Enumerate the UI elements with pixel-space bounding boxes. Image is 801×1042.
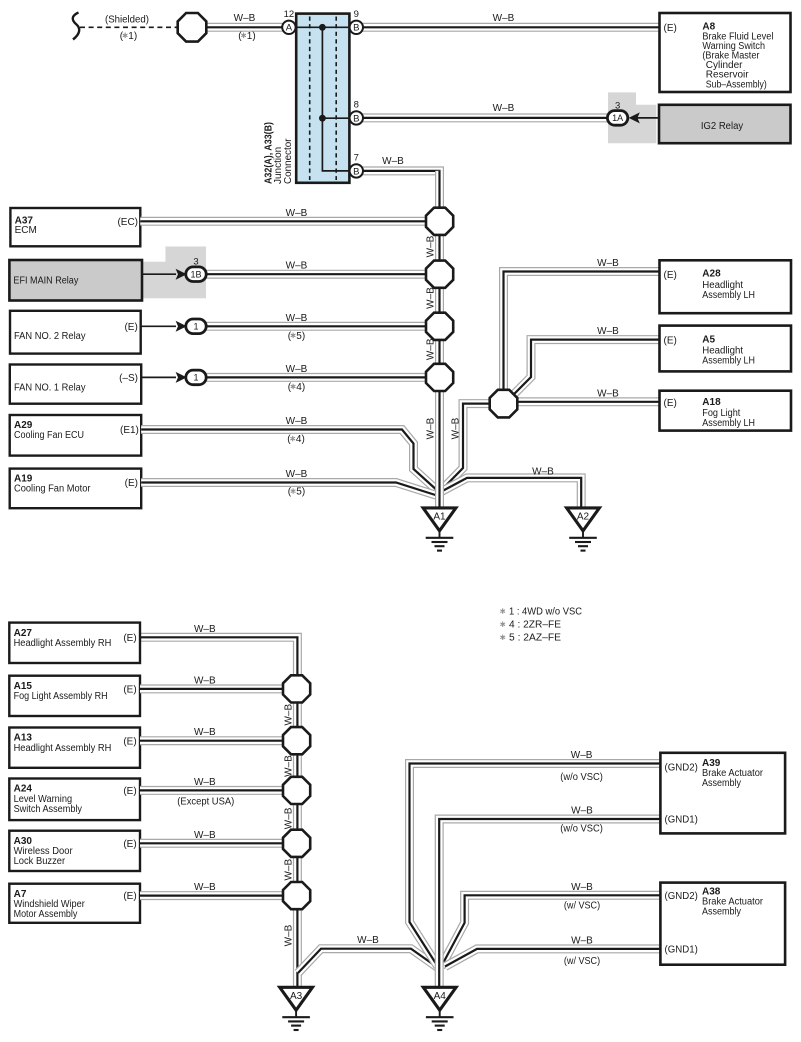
svg-text:5): 5): [296, 487, 305, 498]
svg-text:1 : 4WD w/o VSC: 1 : 4WD w/o VSC: [509, 607, 582, 618]
svg-text:Cooling Fan Motor: Cooling Fan Motor: [14, 484, 91, 495]
svg-text:A3: A3: [290, 991, 303, 1002]
svg-text:W–B: W–B: [284, 755, 295, 777]
svg-text:Assembly LH: Assembly LH: [702, 418, 755, 429]
svg-text:(w/o VSC): (w/o VSC): [560, 772, 603, 783]
arrow into FAN2 pin 1: [176, 321, 187, 332]
junction internal wire branch to B8: [322, 117, 351, 119]
svg-text:W–B: W–B: [284, 807, 295, 829]
wire EFI relay to arrow: [142, 273, 176, 275]
EFI MAIN Relay box: [9, 260, 142, 301]
A29 Cooling Fan ECU box: [10, 415, 142, 456]
legend *1 4WD w/o VSC: [501, 609, 505, 614]
bus octagon 2: [426, 261, 453, 288]
svg-text:4): 4): [296, 382, 305, 393]
svg-text:W–B: W–B: [597, 258, 619, 269]
wire IG2 relay to arrow: [635, 117, 660, 119]
svg-text:(E): (E): [123, 891, 136, 902]
svg-text:(E1): (E1): [120, 425, 139, 436]
svg-text:Assembly: Assembly: [702, 778, 741, 789]
svg-text:FAN NO. 1 Relay: FAN NO. 1 Relay: [14, 382, 86, 393]
svg-text:W–B: W–B: [284, 924, 295, 946]
svg-text:Assembly LH: Assembly LH: [702, 290, 755, 301]
svg-text:(w/o VSC): (w/o VSC): [560, 824, 603, 835]
svg-text:1: 1: [193, 322, 198, 332]
svg-text:(–S): (–S): [119, 373, 138, 384]
gray shade behind connector 1B: [142, 247, 206, 299]
svg-text:W–B: W–B: [597, 326, 619, 337]
svg-text:A4: A4: [434, 991, 447, 1002]
svg-text:(E): (E): [664, 23, 677, 34]
svg-text:W–B: W–B: [426, 338, 437, 360]
wire A38 GND1 to ground A4: [445, 949, 660, 967]
svg-text:(w/ VSC): (w/ VSC): [564, 901, 600, 912]
svg-text:7: 7: [354, 152, 359, 163]
svg-text:W–B: W–B: [382, 156, 404, 167]
svg-text:1): 1): [128, 31, 137, 42]
A37 ECM box: [10, 208, 140, 246]
wire A29 to ground A1: [141, 430, 437, 491]
svg-text:W–B: W–B: [286, 208, 308, 219]
junction connector dashed line left: [309, 17, 311, 181]
svg-text:W–B: W–B: [194, 624, 216, 635]
svg-text:3: 3: [193, 257, 198, 268]
wire A30 to bus: [140, 839, 284, 848]
junction connector dashed line right: [335, 17, 337, 181]
svg-text:(E): (E): [123, 736, 136, 747]
svg-text:W–B: W–B: [597, 388, 619, 399]
FAN NO. 1 Relay box: [10, 365, 141, 404]
svg-text:W–B: W–B: [571, 935, 593, 946]
wire octagon to connector A: [205, 23, 283, 32]
A8 box: [660, 13, 791, 92]
wire FAN1 pin to bus octagon 4: [206, 373, 427, 382]
svg-text:4): 4): [296, 434, 305, 445]
connector pin B / 7: [350, 152, 363, 177]
svg-text:A1: A1: [433, 512, 446, 523]
svg-text:Switch Assembly: Switch Assembly: [14, 804, 82, 815]
wire FAN2 relay to arrow: [141, 325, 176, 327]
svg-text:W–B: W–B: [194, 830, 216, 841]
arrow into FAN1 pin 1: [176, 372, 187, 383]
svg-text:(E): (E): [123, 786, 136, 797]
svg-text:(Shielded): (Shielded): [105, 14, 149, 25]
wire A18 to splice octagon: [516, 397, 660, 406]
junction node dot middle: [319, 115, 326, 122]
svg-text:8: 8: [354, 99, 359, 110]
svg-text:W–B: W–B: [571, 882, 593, 893]
bottom bus octagon 1: [283, 675, 310, 702]
svg-text:Assembly LH: Assembly LH: [702, 356, 755, 367]
svg-text:(GND1): (GND1): [665, 944, 698, 955]
svg-text:Assembly: Assembly: [702, 907, 741, 918]
svg-text:ECM: ECM: [15, 225, 37, 236]
svg-text:9: 9: [354, 9, 359, 20]
svg-text:(GND2): (GND2): [665, 763, 698, 774]
IG2 Relay box: [659, 105, 791, 143]
svg-text:A: A: [286, 23, 293, 34]
svg-text:IG2 Relay: IG2 Relay: [701, 121, 743, 132]
svg-text:W–B: W–B: [571, 750, 593, 761]
connector pin A / 12: [282, 9, 295, 34]
svg-text:3: 3: [615, 100, 620, 111]
ground A4: [423, 987, 456, 1030]
svg-text:(w/ VSC): (w/ VSC): [564, 956, 600, 967]
wire A38 GND2 to ground A4: [441, 895, 660, 967]
svg-text:(EC): (EC): [117, 217, 138, 228]
connector pin B / 9: [350, 9, 363, 34]
svg-text:Headlight Assembly RH: Headlight Assembly RH: [14, 743, 112, 754]
wire splice octagon down to ground A1: [440, 404, 491, 492]
svg-text:W–B: W–B: [451, 417, 462, 439]
svg-text:A5: A5: [702, 334, 715, 345]
ground A2: [567, 508, 600, 551]
ground A1: [423, 508, 456, 551]
svg-text:W–B: W–B: [194, 675, 216, 686]
A7 box: [9, 884, 140, 923]
svg-text:(GND1): (GND1): [665, 815, 698, 826]
shield cut squiggle: [73, 13, 79, 40]
svg-text:B: B: [353, 166, 359, 177]
connector pin 1 FAN2: [186, 319, 206, 334]
svg-text:B: B: [353, 23, 359, 34]
FAN NO. 2 Relay box: [10, 311, 141, 354]
A15 box: [9, 676, 140, 716]
junction internal wire A to B9: [294, 26, 351, 28]
svg-text:(E): (E): [124, 322, 137, 333]
gray shade behind connector 1A: [608, 92, 656, 143]
svg-text:W–B: W–B: [357, 935, 379, 946]
svg-text:W–B: W–B: [194, 882, 216, 893]
svg-text:1): 1): [247, 31, 256, 42]
wire A15 to bus: [140, 684, 284, 693]
svg-text:W–B: W–B: [426, 417, 437, 439]
svg-text:B: B: [353, 113, 359, 124]
connector pin B / 8: [350, 99, 363, 124]
wire B7 to bus octagon 1: [363, 171, 440, 210]
svg-text:FAN NO. 2 Relay: FAN NO. 2 Relay: [14, 331, 86, 342]
arrow into 1A: [629, 112, 640, 123]
junction connector A32/A33 box: [296, 14, 349, 183]
wire B9 to A8: [363, 23, 660, 32]
wire to ground A2: [442, 478, 582, 509]
wire A5 to splice octagon: [514, 340, 660, 395]
main ground bus vertical: [435, 171, 444, 509]
wire A7 to bus: [140, 891, 284, 900]
svg-text:W–B: W–B: [426, 287, 437, 309]
A18 Fog Light box: [660, 391, 792, 431]
bus octagon 4: [426, 364, 453, 391]
svg-text:W–B: W–B: [234, 13, 256, 24]
shielded dashed wire: [80, 26, 178, 28]
A13 box: [9, 728, 140, 768]
ground A3: [280, 987, 313, 1030]
svg-text:W–B: W–B: [194, 727, 216, 738]
svg-text:W–B: W–B: [286, 364, 308, 375]
junction internal wire down to B7: [322, 27, 351, 171]
svg-text:1A: 1A: [612, 113, 623, 123]
wire 1B to bus octagon 2: [206, 270, 427, 279]
svg-text:W–B: W–B: [286, 261, 308, 272]
svg-text:(E): (E): [123, 839, 136, 850]
wire A13 to bus: [140, 736, 284, 745]
bus octagon 1: [426, 208, 453, 235]
bottom bus octagon 3: [283, 777, 310, 804]
svg-text:Fog Light Assembly RH: Fog Light Assembly RH: [14, 691, 108, 702]
wire A3 branch to ground A4: [298, 949, 439, 973]
svg-text:(E): (E): [664, 270, 677, 281]
svg-text:5 : 2AZ–FE: 5 : 2AZ–FE: [509, 633, 561, 644]
svg-text:EFI MAIN Relay: EFI MAIN Relay: [13, 276, 78, 287]
wire A27 to bottom bus: [140, 637, 297, 988]
splice octagon headlights: [490, 390, 518, 418]
A19 Cooling Fan Motor box: [10, 469, 142, 509]
svg-text:Sub–Assembly): Sub–Assembly): [706, 79, 767, 90]
A38 box: [660, 883, 785, 965]
svg-text:(E): (E): [125, 478, 138, 489]
svg-text:A2: A2: [577, 512, 590, 523]
svg-text:5): 5): [296, 331, 305, 342]
svg-text:12: 12: [284, 9, 295, 20]
connector 1B / 3: [186, 257, 206, 282]
svg-text:Motor Assembly: Motor Assembly: [14, 909, 78, 920]
svg-text:Lock Buzzer: Lock Buzzer: [14, 856, 66, 867]
svg-text:(E): (E): [123, 685, 136, 696]
svg-text:W–B: W–B: [284, 704, 295, 726]
wire A24 to bus: [140, 786, 284, 795]
svg-text:W–B: W–B: [493, 13, 515, 24]
svg-text:1: 1: [193, 373, 198, 383]
svg-text:W–B: W–B: [284, 859, 295, 881]
splice octagon top-left: [178, 13, 207, 42]
svg-text:(Except USA): (Except USA): [177, 797, 234, 808]
svg-text:1B: 1B: [190, 270, 201, 280]
bus octagon 3: [426, 313, 453, 340]
svg-text:Headlight Assembly RH: Headlight Assembly RH: [14, 638, 112, 649]
svg-text:Cooling Fan ECU: Cooling Fan ECU: [14, 430, 84, 441]
bottom bus octagon 5: [283, 882, 310, 909]
wire FAN2 pin to bus octagon 3: [206, 322, 427, 331]
bottom bus octagon 2: [283, 727, 310, 754]
svg-text:W–B: W–B: [286, 416, 308, 427]
A28 Headlight box: [660, 260, 792, 313]
svg-text:(E): (E): [664, 398, 677, 409]
A27 box: [9, 623, 140, 663]
svg-text:A18: A18: [702, 397, 721, 408]
wire A28 to splice octagon: [504, 272, 660, 393]
svg-text:(GND2): (GND2): [665, 891, 698, 902]
svg-text:W–B: W–B: [493, 103, 515, 114]
A24 box: [9, 779, 140, 821]
wire B8 to 1A: [363, 113, 609, 122]
bottom bus octagon 4: [283, 830, 310, 857]
connector pin 1 FAN1: [186, 370, 206, 385]
legend *5 2AZ-FE: [501, 635, 505, 640]
svg-text:Connector: Connector: [283, 138, 294, 184]
svg-text:(E): (E): [123, 633, 136, 644]
wire FAN1 relay to arrow: [141, 376, 176, 378]
wire A19 to ground A1: [141, 483, 437, 496]
svg-text:W–B: W–B: [532, 466, 554, 477]
svg-text:W–B: W–B: [194, 777, 216, 788]
wire A37 to bus: [140, 217, 427, 226]
A30 box: [9, 831, 140, 871]
svg-text:4 : 2ZR–FE: 4 : 2ZR–FE: [509, 620, 561, 631]
svg-text:A28: A28: [702, 269, 721, 280]
legend *4 2ZR-FE: [501, 622, 505, 627]
svg-text:W–B: W–B: [286, 469, 308, 480]
svg-text:W–B: W–B: [571, 806, 593, 817]
arrow into 1B: [176, 269, 187, 280]
svg-text:(E): (E): [664, 336, 677, 347]
wire A39 GND1 to ground A4: [439, 819, 660, 988]
wire A39 GND2 to ground A4: [410, 764, 661, 967]
junction node dot top: [319, 24, 326, 31]
A39 box: [660, 753, 785, 834]
connector 1A / 3: [607, 100, 627, 125]
svg-text:W–B: W–B: [426, 235, 437, 257]
A5 Headlight box: [660, 326, 792, 372]
svg-text:W–B: W–B: [286, 313, 308, 324]
